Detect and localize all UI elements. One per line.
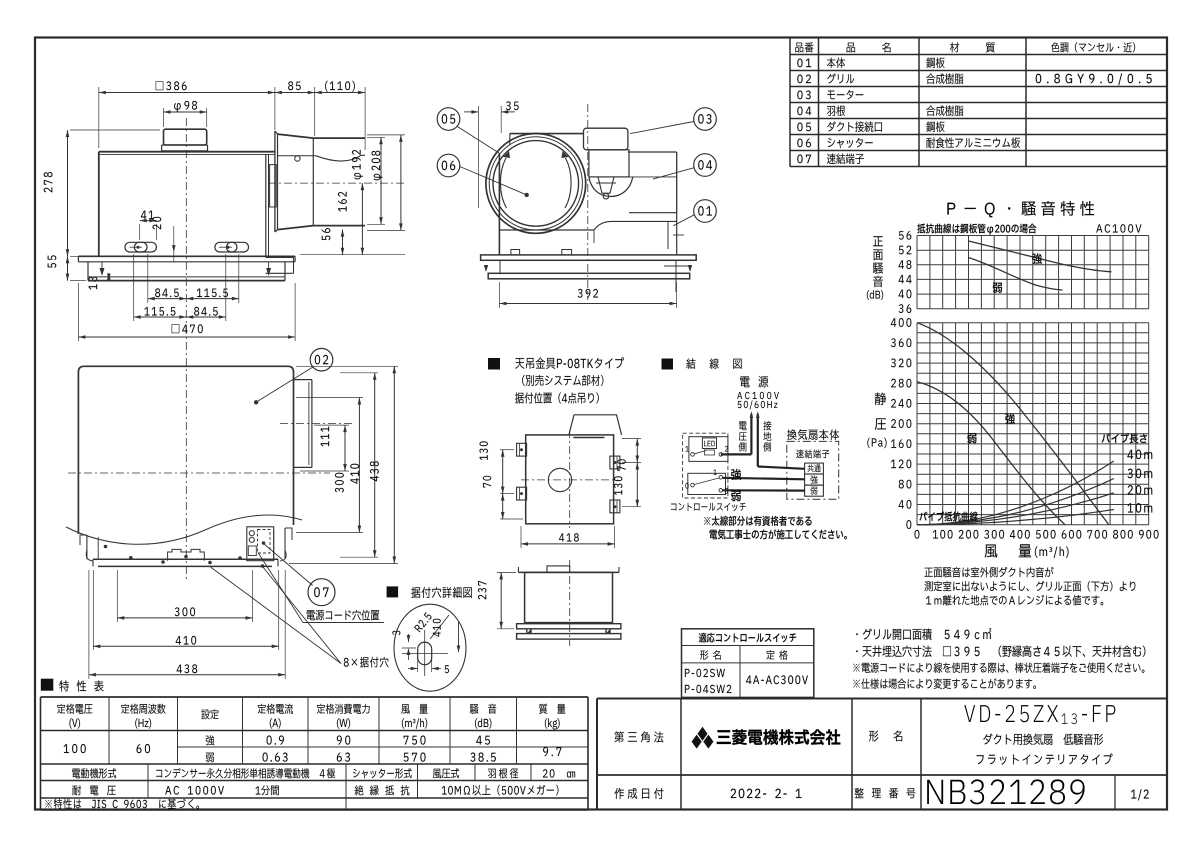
strong label wiring <box>731 469 741 480</box>
parts row 03 <box>797 91 810 100</box>
balloon 04 <box>694 154 717 177</box>
dim 392 <box>499 282 501 308</box>
model desc line2 <box>977 754 1113 765</box>
control switch label <box>671 503 746 511</box>
bracket top stub <box>569 415 622 435</box>
vertical centerline <box>185 118 187 582</box>
detail dim 410 <box>458 622 460 652</box>
pq curve weak <box>917 382 1065 525</box>
ceiling cut marks <box>100 268 105 276</box>
duct adapter <box>274 131 276 232</box>
fan body label <box>787 429 839 440</box>
fan body box <box>787 441 839 499</box>
pipe resistance label <box>919 512 977 522</box>
bell mouth <box>589 177 633 197</box>
power supply label <box>740 376 768 387</box>
dim phi192 <box>367 136 385 138</box>
pq label weak <box>967 433 976 443</box>
dim 162 <box>361 183 363 255</box>
detail ellipse <box>394 604 466 691</box>
terminal box plan <box>247 527 274 561</box>
balloon 02 <box>310 348 333 371</box>
parts row 04 <box>797 107 811 116</box>
mounting holes label <box>344 657 389 668</box>
label weak <box>993 283 1002 293</box>
label strong <box>1032 253 1042 264</box>
characteristics table header mark <box>41 679 54 691</box>
characteristics table <box>41 696 589 698</box>
pq label strong <box>1005 413 1015 424</box>
nozzle <box>598 177 614 193</box>
detail R2.5 leader <box>430 615 449 639</box>
wire strong <box>723 478 805 480</box>
electrician note2 <box>710 529 847 539</box>
balloon 06 <box>437 154 460 177</box>
bracket dim 237 <box>497 571 516 573</box>
bracket hooks left <box>517 443 527 456</box>
serial number NB321289 <box>927 779 1084 804</box>
bracket section title <box>488 358 500 370</box>
jis note <box>45 799 199 809</box>
shutter flap <box>278 155 317 157</box>
pq chart grid <box>917 323 1149 525</box>
bracket dim left 70 <box>500 518 523 520</box>
chart note AC100V <box>1096 224 1141 232</box>
chart footnote line1 <box>924 567 1053 577</box>
front view duct rings <box>486 134 586 234</box>
bullet ceiling hole <box>856 646 1145 657</box>
voltage row <box>72 785 115 795</box>
dim 20 <box>173 226 175 262</box>
pipe length label <box>1102 433 1147 443</box>
plan bottom dims <box>88 570 90 679</box>
note power cord <box>853 662 1144 672</box>
dims 84.5 115.5 row1 <box>147 254 149 303</box>
plan base assembly <box>86 535 88 559</box>
wire weak <box>723 489 805 492</box>
parts row 05 <box>797 123 811 132</box>
balloon 07 <box>308 579 335 606</box>
dim 56 <box>300 254 405 256</box>
x axis title flow rate <box>985 545 998 558</box>
plan right dim 300 <box>358 398 360 533</box>
switch led circuit <box>689 437 728 462</box>
wire terminal2 to power <box>721 453 752 455</box>
center clamp <box>168 549 205 560</box>
date label <box>614 788 663 799</box>
plan centerline horizontal <box>68 472 330 474</box>
noise chart y labels <box>899 231 911 240</box>
title block <box>597 698 1166 700</box>
quick terminal label <box>796 450 829 459</box>
voltage side label <box>739 421 746 430</box>
static pressure axis title <box>875 393 886 405</box>
dim 18 <box>108 273 110 281</box>
pipe resistance curves <box>917 461 1114 525</box>
flange right step <box>266 256 294 258</box>
dim phi98 <box>163 108 165 127</box>
duct centerline <box>268 182 405 184</box>
wire ground to common <box>758 467 805 469</box>
body bottom <box>499 229 594 231</box>
chart footnote line2 <box>924 581 1135 591</box>
power cord hole label <box>307 610 379 621</box>
parts table header <box>795 42 813 52</box>
duct pipe <box>313 137 365 139</box>
side view right body edge <box>265 154 267 256</box>
sheet number <box>1131 789 1149 800</box>
chart note resistance curve <box>917 224 1036 235</box>
detail dim 5 <box>417 657 419 672</box>
dim 35 <box>477 106 479 208</box>
side view top duct stub phi98 <box>164 129 207 145</box>
control switch outer box <box>683 433 728 498</box>
parts table <box>790 54 1166 56</box>
pq chart x labels <box>915 530 920 539</box>
dim 55 <box>70 280 86 282</box>
noise curve weak <box>969 258 1063 291</box>
char table data <box>64 744 86 753</box>
front right terminal detail <box>667 221 669 249</box>
detail slot hole <box>418 642 432 665</box>
shutter arcs inside ring <box>500 158 506 208</box>
front body outline <box>498 153 500 255</box>
balloon 03 <box>694 108 717 131</box>
hanging slots right <box>215 242 237 252</box>
parts row 02 <box>797 75 811 84</box>
model number VD-25ZX13-FP <box>964 705 1115 724</box>
ground side label <box>763 421 771 430</box>
base tabs <box>511 250 520 255</box>
plan duct stub <box>294 379 312 381</box>
balloon 05 <box>437 108 460 131</box>
parts row 07 <box>797 155 811 164</box>
dim 470 <box>77 283 79 341</box>
mounting hole detail title <box>387 586 399 597</box>
plan screws <box>104 545 108 549</box>
dim 278 <box>70 129 160 131</box>
pipe labels <box>1127 450 1152 459</box>
dim 386 <box>98 87 100 148</box>
motor lower box <box>589 150 629 177</box>
power wires <box>750 414 752 454</box>
bullet grille area <box>856 628 991 640</box>
model name label <box>869 730 902 741</box>
noise curve strong <box>969 241 1112 272</box>
motor top box <box>584 128 628 150</box>
break wave line <box>66 515 302 544</box>
switch lower circuit <box>688 473 726 494</box>
company name <box>717 729 841 745</box>
hanging slots left <box>125 242 147 252</box>
weak label wiring <box>731 491 740 502</box>
front centerline <box>587 104 589 300</box>
noise chart grid <box>917 236 1149 309</box>
wiring title <box>662 359 674 370</box>
detail dim 3 <box>408 634 410 642</box>
pq chart y labels <box>891 318 911 327</box>
front flange plate <box>481 255 697 260</box>
bottom flange plate <box>78 255 295 257</box>
motor row <box>147 764 149 798</box>
noise chart axis title <box>873 236 883 246</box>
front lower plate <box>488 273 690 279</box>
terminal boxes <box>805 463 824 474</box>
dim 41 <box>139 224 141 240</box>
mitsubishi logo three diamonds <box>698 727 708 741</box>
serial label <box>855 788 916 799</box>
parts row 01 <box>797 59 811 68</box>
plan view grille outline <box>78 366 293 534</box>
bracket center hole <box>548 468 571 491</box>
chart footnote line3 <box>926 595 1103 606</box>
dims 115.5 84.5 row2 <box>133 254 135 321</box>
dim 85 <box>314 87 316 136</box>
date value <box>731 789 802 798</box>
model desc line1 <box>983 734 1103 745</box>
chart title P-Q noise characteristics <box>947 201 1094 217</box>
control switch table <box>682 629 814 698</box>
side view body <box>99 151 275 153</box>
bracket hooks right <box>610 456 620 469</box>
parts row 06 <box>797 139 811 148</box>
balloon 01 <box>694 200 717 223</box>
bracket plan square <box>526 435 614 524</box>
dim phi208 <box>367 134 405 136</box>
dim (110) <box>364 87 366 150</box>
plan corner brackets <box>80 535 87 545</box>
plan right dim 410 <box>374 373 376 557</box>
pq curve strong <box>917 323 1109 525</box>
duct axis centerline <box>280 423 352 425</box>
plan right dim 438 <box>296 365 398 367</box>
bracket dim left 130 <box>500 449 514 451</box>
bracket side view <box>518 571 619 573</box>
third angle projection label <box>614 731 663 742</box>
bracket dim right 130 <box>622 506 641 508</box>
note spec change <box>853 678 1036 688</box>
fan casing <box>628 151 677 153</box>
electrician note1 <box>704 516 811 526</box>
bracket dim 418 <box>520 526 522 548</box>
bracket dim right 70 <box>622 438 641 440</box>
plan right dims 111 <box>314 424 349 426</box>
